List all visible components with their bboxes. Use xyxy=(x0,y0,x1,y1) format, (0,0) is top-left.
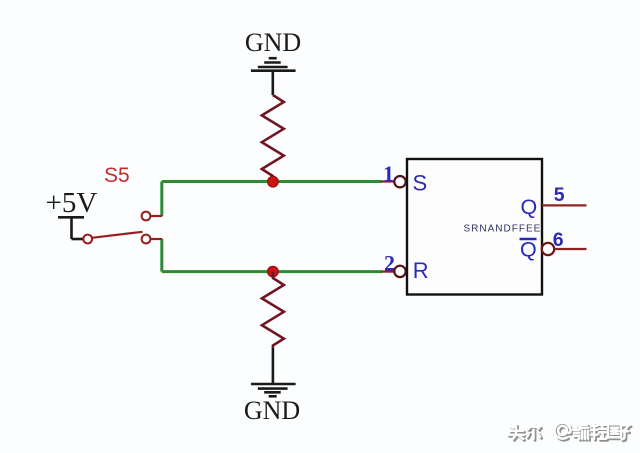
resistor R top xyxy=(262,95,284,182)
node A (top junction) xyxy=(268,176,279,187)
svg-text:6: 6 xyxy=(553,229,564,251)
svg-text:GND: GND xyxy=(245,28,301,57)
wire bottom horizontal xyxy=(162,270,382,273)
pin 6 lead xyxy=(554,248,586,250)
svg-text:Q: Q xyxy=(521,195,538,219)
wire left vertical upper xyxy=(160,182,163,217)
switch blade xyxy=(92,232,143,238)
svg-text:5: 5 xyxy=(554,184,565,206)
pin 6 bubble xyxy=(542,243,554,255)
switch S5 pole contact xyxy=(83,235,92,244)
svg-text:1: 1 xyxy=(383,161,394,186)
svg-text:S: S xyxy=(413,170,428,195)
switch throw contact upper xyxy=(142,212,151,221)
svg-text:GND: GND xyxy=(244,396,300,425)
op IC U1 box xyxy=(407,159,542,295)
Q-bar overline xyxy=(520,238,537,240)
pin circle R (pin 2) xyxy=(394,266,405,277)
ground symbol top (inverted) xyxy=(251,58,296,95)
svg-text:S5: S5 xyxy=(104,164,130,187)
pin stub R xyxy=(381,271,394,273)
pin stub S xyxy=(381,180,394,182)
ground symbol bottom xyxy=(251,384,296,396)
pin circle S (pin 1) xyxy=(394,176,405,187)
switch throw contact lower xyxy=(142,235,151,244)
svg-text:+5V: +5V xyxy=(46,187,98,219)
watermark 头条@编程圈子 (drawn strokes, embossed gray) xyxy=(508,423,631,441)
svg-text:Q: Q xyxy=(520,238,537,262)
svg-text:2: 2 xyxy=(384,251,395,276)
pin 5 lead xyxy=(542,204,587,206)
wire left vertical lower xyxy=(160,239,163,272)
node B (bottom junction) xyxy=(268,266,279,277)
resistor R bottom xyxy=(262,272,284,348)
stem to bottom ground xyxy=(272,348,275,383)
stub lower throw xyxy=(150,238,162,240)
svg-text:R: R xyxy=(413,258,429,283)
+5V power bar symbol xyxy=(58,217,84,239)
svg-text:SRNANDFFEE: SRNANDFFEE xyxy=(464,224,542,235)
stub upper throw xyxy=(150,215,162,217)
wire top horizontal xyxy=(162,180,382,183)
